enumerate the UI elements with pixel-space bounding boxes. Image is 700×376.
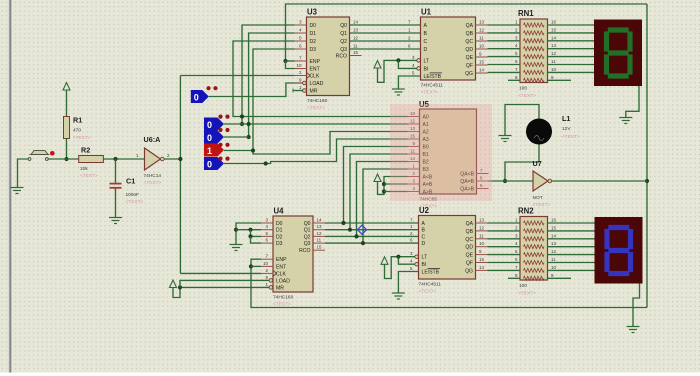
node C1 tap (113, 157, 117, 161)
wire RN1 out 2 to display (548, 40, 595, 42)
svg-text:13: 13 (551, 43, 557, 48)
wire U3 Q1 to U1 (350, 28, 421, 34)
node U1 LT/BI (396, 58, 400, 62)
svg-text:D1: D1 (276, 228, 283, 234)
wire RN1 out 4 to display (548, 56, 595, 58)
svg-text:ENP: ENP (310, 59, 321, 65)
wire U2 Q5 to RN2 (488, 262, 521, 264)
node tap Q2 (354, 234, 358, 238)
wire U5 A=B in (384, 183, 408, 185)
svg-text:<TEXT>: <TEXT> (80, 173, 98, 179)
logic state probe P4 (1) (204, 144, 224, 157)
svg-text:14: 14 (551, 35, 557, 40)
wire U2 LE to ground (398, 272, 418, 293)
wire U4 D2 (251, 230, 262, 237)
node P4 jog (264, 161, 268, 165)
wire RN2 out 1 to display (548, 230, 595, 232)
svg-text:15: 15 (479, 257, 485, 262)
wire U1 Q0 to RN1 (488, 24, 521, 26)
svg-text:Q1: Q1 (304, 228, 311, 234)
resistor network RN2 (515, 207, 557, 297)
power arrow (U5 cascade) (374, 174, 381, 182)
svg-text:10: 10 (479, 44, 485, 49)
power arrow (U4 LOAD/MR) (170, 280, 177, 288)
svg-text:QG: QG (465, 71, 473, 77)
wire switch to R2 (48, 158, 78, 160)
resistor R2 (79, 146, 104, 180)
svg-text:MR: MR (276, 285, 284, 291)
node D1/A1 (247, 122, 251, 126)
node U4 D3 tie (248, 234, 252, 238)
BCD decoder U1 74HC4511 (412, 8, 488, 96)
svg-text:C1: C1 (126, 177, 135, 186)
svg-text:BI: BI (424, 66, 429, 72)
node tap Q1 (348, 228, 352, 232)
svg-text:<TEXT>: <TEXT> (144, 180, 162, 186)
node A (R1/R2 junction) (64, 157, 68, 161)
wire U5 QA=B to U7 (489, 180, 534, 182)
svg-text:LE/STB: LE/STB (422, 270, 440, 276)
svg-text:15: 15 (317, 245, 323, 250)
svg-text:14: 14 (353, 20, 359, 25)
svg-text:100: 100 (519, 86, 527, 92)
wire U4 load power hook (173, 287, 269, 297)
svg-text:12: 12 (317, 231, 323, 236)
svg-text:<TEXT>: <TEXT> (73, 135, 91, 141)
wire probe P3 out (224, 150, 253, 152)
wire U2 Q6 to RN2 (488, 269, 521, 271)
svg-text:12: 12 (353, 36, 359, 41)
svg-text:13: 13 (479, 218, 485, 223)
ground (switch) (11, 188, 24, 194)
svg-text:U1: U1 (421, 8, 432, 17)
svg-text:A: A (422, 221, 426, 227)
wire U2 Q2 to RN2 (488, 238, 521, 240)
wire RN1 out 5 to display (548, 64, 595, 66)
wire U1 Q2 to RN1 (488, 40, 521, 42)
logic state probe P2 (0) (204, 118, 224, 131)
ground (lamp) (499, 136, 512, 142)
ground (U4 D pins) (230, 245, 243, 251)
wire U5 A>B in (384, 191, 408, 193)
resistor network RN1 (515, 9, 557, 99)
wire probe P2 out (224, 136, 249, 138)
svg-text:10k: 10k (80, 166, 88, 172)
svg-text:QC: QC (465, 39, 473, 45)
svg-text:100: 100 (519, 283, 527, 289)
svg-text:11: 11 (551, 59, 556, 64)
wire U1 Q3 to RN1 (488, 48, 521, 50)
wire P1 to U3 LOAD (209, 83, 303, 97)
wire U1 Q6 to RN1 (488, 71, 521, 73)
wire RN2 out 6 to display (548, 269, 595, 271)
wire RN2 out 0 to display (548, 222, 595, 224)
wire tap Q2 to U5 B2 (357, 162, 408, 237)
svg-text:0: 0 (207, 120, 212, 130)
wire U1 BI (398, 60, 416, 68)
svg-text:MR: MR (310, 89, 318, 95)
svg-text:12: 12 (551, 51, 557, 56)
logic state probe P3 (0) (204, 131, 224, 144)
7-segment display DS1 (green) (594, 20, 642, 87)
RN1 pin8 stub left (508, 79, 520, 81)
svg-text:<TEXT>: <TEXT> (419, 289, 437, 295)
svg-text:RCO: RCO (336, 54, 347, 60)
bottom white strip (0, 373, 700, 376)
wire R2 to U6 input (103, 153, 144, 159)
pushbutton switch (28, 151, 54, 161)
wire U4 LOAD (180, 280, 269, 287)
svg-text:RCO: RCO (299, 248, 310, 254)
wire U1 Q4 to RN1 (488, 56, 521, 58)
wire U3 Q0 to U1 (350, 20, 421, 26)
svg-text:<TEXT>: <TEXT> (273, 302, 291, 308)
svg-text:0: 0 (207, 133, 212, 143)
probe P3 dots (218, 128, 229, 132)
svg-text:<TEXT>: <TEXT> (518, 291, 536, 297)
svg-text:LT: LT (424, 58, 430, 64)
wire tap Q1 to U5 B1 (350, 154, 408, 230)
wire U3 Q3 to U1 (350, 44, 421, 50)
svg-text:11: 11 (353, 44, 358, 49)
node U4 LOAD/MR (178, 285, 182, 289)
svg-text:U3: U3 (307, 8, 318, 17)
BCD decoder U2 74HC4511 (410, 206, 488, 295)
svg-text:<TEXT>: <TEXT> (562, 134, 580, 140)
svg-text:74HC160: 74HC160 (273, 295, 294, 301)
svg-text:13: 13 (353, 28, 359, 33)
logic state probe P1 (0) for U3 LOAD (191, 90, 209, 103)
svg-text:QD: QD (465, 245, 473, 251)
wire U3 ENT (286, 61, 295, 69)
svg-text:CLK: CLK (310, 74, 321, 80)
node U7 out (645, 179, 649, 183)
wire U4 Q2 to U2 (325, 231, 419, 237)
svg-text:QE: QE (466, 253, 474, 259)
svg-text:470: 470 (73, 128, 81, 134)
selection highlight around U5 (390, 104, 492, 201)
svg-text:D2: D2 (310, 39, 317, 45)
svg-text:74HC160: 74HC160 (307, 98, 328, 104)
wire RN1 out 6 to display (548, 71, 595, 73)
RN2 pin8 stub left (508, 277, 520, 279)
wire lamp top to ground (505, 105, 539, 136)
svg-text:15: 15 (551, 27, 557, 32)
svg-text:Q1: Q1 (340, 31, 347, 37)
svg-text:C: C (422, 234, 426, 240)
svg-text:11: 11 (479, 36, 484, 41)
wire RN2 out 4 to display (548, 254, 595, 256)
wire clock to U3 CLK (180, 75, 294, 77)
wire U4 Q0 to U2 (325, 218, 419, 224)
probe P5 dots (218, 157, 229, 161)
svg-text:12: 12 (479, 28, 485, 33)
wire RN2 out 5 to display (548, 262, 595, 264)
node U4 D2 tie (248, 228, 252, 232)
svg-text:12V: 12V (562, 126, 571, 132)
svg-text:12: 12 (479, 225, 485, 230)
inverter U7 NOT (533, 159, 552, 208)
logic state probe P5 (0) (204, 157, 224, 170)
capacitor C1 (110, 177, 144, 206)
svg-text:12: 12 (551, 249, 557, 254)
svg-text:1: 1 (207, 146, 212, 156)
wire U4 D1 (236, 229, 261, 231)
probe P2 dots (218, 115, 229, 119)
svg-text:0: 0 (207, 160, 212, 170)
wire U5 cascade power (378, 177, 408, 195)
svg-text:14: 14 (479, 265, 485, 270)
svg-text:LT: LT (422, 255, 428, 261)
node U7 in (503, 179, 507, 183)
svg-text:LOAD: LOAD (310, 81, 324, 87)
svg-text:15: 15 (551, 225, 557, 230)
left divider bar (9, 0, 12, 373)
svg-text:13: 13 (551, 241, 557, 246)
wire tap Q3 to U5 B3 (363, 169, 408, 243)
wire RN1 out 1 to display (548, 32, 595, 34)
svg-text:B: B (422, 228, 426, 234)
svg-text:10: 10 (551, 67, 557, 72)
ground (C1) (109, 218, 122, 224)
svg-text:ENT: ENT (310, 67, 320, 73)
svg-text:B: B (424, 31, 428, 37)
wire U3 ENP (286, 60, 295, 62)
svg-text:<TEXT>: <TEXT> (307, 105, 325, 111)
svg-text:LE/STB: LE/STB (424, 74, 442, 80)
svg-text:ENT: ENT (276, 264, 286, 270)
node D2/A0 row (240, 114, 244, 118)
svg-text:74HC4511: 74HC4511 (421, 83, 444, 89)
wire lamp bottom to U7 input (505, 145, 539, 182)
svg-text:14: 14 (317, 218, 323, 223)
svg-text:<TEXT>: <TEXT> (518, 93, 536, 99)
svg-text:13: 13 (479, 20, 485, 25)
wire node to C1 (115, 159, 117, 183)
wire probe P4 out to A3 staircase (224, 139, 408, 164)
svg-text:U2: U2 (419, 206, 430, 215)
svg-text:10: 10 (551, 265, 557, 270)
wire U4 ENP/ENT to bottom rail (251, 259, 647, 307)
power arrow VCC (R1) (63, 83, 70, 117)
wire RN2 out 3 to display (548, 246, 595, 248)
svg-text:15: 15 (353, 50, 359, 55)
inverter U6:A 74HC14 (144, 135, 171, 186)
wire U3 D2 preset net to U5 A0 (233, 41, 408, 117)
svg-text:U6:A: U6:A (144, 135, 161, 144)
clock rail vertical (179, 76, 181, 274)
svg-text:R1: R1 (73, 116, 82, 125)
node D0 on A1 row (240, 122, 244, 126)
right feedback rail (646, 4, 648, 308)
wire DS1 to ground (626, 86, 639, 117)
svg-text:R2: R2 (81, 146, 90, 155)
ground (U2 LE) (392, 293, 405, 299)
wire U2 BI (398, 257, 414, 265)
node U4 ENT (249, 264, 253, 268)
svg-text:Q0: Q0 (340, 23, 347, 29)
wire U3 D0 preset net (242, 25, 295, 124)
svg-text:QA: QA (466, 23, 474, 29)
svg-text:11: 11 (317, 238, 322, 243)
wire U2 Q0 to RN2 (488, 222, 521, 224)
svg-text:D: D (424, 47, 428, 53)
svg-text:LOAD: LOAD (276, 278, 290, 284)
svg-text:QF: QF (466, 63, 473, 69)
RN1 pin9 stub right (548, 79, 572, 81)
wire clock to U4 CLK (180, 272, 261, 274)
wire U3 Q2 to U1 (350, 36, 421, 42)
7-segment display DS2 (blue) (595, 217, 643, 284)
svg-text:Q3: Q3 (304, 241, 311, 247)
svg-text:100nF: 100nF (126, 192, 140, 198)
wire U1 LE to ground (398, 76, 420, 89)
ground (DS1) (619, 118, 632, 124)
node clock rail / U6 out (178, 157, 182, 161)
wire U2 Q1 to RN2 (488, 230, 521, 232)
svg-text:74HC4511: 74HC4511 (419, 282, 442, 288)
wire C1 to ground (115, 189, 117, 218)
svg-text:QA: QA (466, 221, 474, 227)
svg-text:<TEXT>: <TEXT> (421, 90, 439, 96)
voltage probe marker (blue diamond) (358, 225, 367, 234)
wire U4 D0 to ground (236, 223, 261, 244)
svg-text:U7: U7 (533, 159, 542, 168)
node U4 D1 gnd (234, 228, 238, 232)
wire U6 output to clock rail (164, 158, 180, 160)
wire U3 D3 preset net to A2 staircase (253, 49, 408, 154)
wire RN1 out 3 to display (548, 48, 595, 50)
svg-text:RN1: RN1 (518, 9, 534, 18)
wire U4 Q1 to U2 (325, 224, 419, 230)
node U5 A>B (382, 189, 386, 193)
wire U1 power to LT (378, 60, 417, 82)
svg-text:D1: D1 (310, 31, 317, 37)
svg-text:<TEXT>: <TEXT> (126, 199, 144, 205)
svg-text:14: 14 (479, 68, 485, 73)
wire RN1 out 0 to display (548, 24, 595, 26)
svg-text:Q3: Q3 (340, 47, 347, 53)
wire U4 D3 (251, 236, 262, 243)
svg-text:D0: D0 (310, 23, 317, 29)
power arrow (U2 LT/BI) (381, 257, 388, 265)
svg-text:QF: QF (466, 261, 473, 267)
svg-text:Q2: Q2 (340, 39, 347, 45)
wire U3 D1 preset net (249, 33, 295, 137)
wire DS2 to ground (633, 284, 640, 327)
svg-text:D: D (422, 241, 426, 247)
svg-text:C: C (424, 39, 428, 45)
ground (U1 LE) (392, 89, 405, 95)
svg-text:16: 16 (551, 20, 557, 25)
wire top rail (286, 4, 648, 61)
svg-text:Q2: Q2 (304, 234, 311, 240)
wire U2 power to LT (385, 257, 415, 279)
node tap Q0 (341, 221, 345, 225)
RN2 pin9 stub right (548, 277, 572, 279)
svg-text:D0: D0 (276, 221, 283, 227)
wire probe P2 row to U5 A1 (224, 123, 408, 125)
wire R1 to node (66, 138, 68, 159)
svg-text:QD: QD (465, 47, 473, 53)
svg-text:D3: D3 (276, 241, 283, 247)
wire U1 Q1 to RN1 (488, 32, 521, 34)
svg-text:QE: QE (466, 55, 474, 61)
wire switch to ground (18, 159, 29, 187)
ground (DS2) (627, 327, 640, 333)
lamp L1 (526, 114, 580, 145)
svg-text:0: 0 (194, 93, 199, 103)
svg-text:11: 11 (479, 233, 484, 238)
wire U3 MR stub (293, 89, 303, 93)
comparator U5 74HC85 (408, 100, 489, 210)
svg-text:QB: QB (466, 229, 474, 235)
node D1/P2 (247, 135, 251, 139)
svg-text:10: 10 (263, 261, 269, 266)
resistor R1 (64, 116, 92, 142)
svg-text:16: 16 (551, 218, 557, 223)
svg-text:11: 11 (551, 257, 556, 262)
node P3/D3 (251, 148, 255, 152)
svg-text:NOT: NOT (533, 195, 543, 201)
svg-text:QG: QG (465, 268, 473, 274)
svg-text:14: 14 (551, 233, 557, 238)
node U5 A=B (382, 182, 386, 186)
svg-text:<TEXT>: <TEXT> (533, 202, 551, 208)
wire U1 Q5 to RN1 (488, 64, 521, 66)
svg-text:D3: D3 (310, 47, 317, 53)
counter U4 74HC160 (261, 207, 325, 308)
probe P1 dots (206, 86, 217, 90)
wire U4 ENT (251, 265, 261, 267)
svg-text:L1: L1 (562, 114, 570, 123)
wire U7 output to rail (552, 180, 647, 182)
svg-text:QC: QC (465, 237, 473, 243)
node tap Q3 (361, 241, 365, 245)
svg-text:U4: U4 (274, 207, 285, 216)
svg-text:ENP: ENP (276, 257, 287, 263)
svg-text:10: 10 (479, 241, 485, 246)
svg-text:13: 13 (317, 224, 323, 229)
svg-text:A: A (424, 23, 428, 29)
wire U2 Q3 to RN2 (488, 246, 521, 248)
svg-text:CLK: CLK (276, 271, 287, 277)
svg-text:Q0: Q0 (304, 221, 311, 227)
svg-text:10: 10 (296, 63, 302, 68)
wire tap Q0 to U5 B0 (344, 147, 408, 224)
node U2 LT/BI (396, 255, 400, 259)
svg-text:15: 15 (479, 60, 485, 65)
wire RN2 out 2 to display (548, 238, 595, 240)
node U3 ENP (283, 59, 287, 63)
svg-text:BI: BI (422, 262, 427, 268)
wire U4 Q3 to U2 (325, 238, 419, 244)
svg-text:74HC14: 74HC14 (144, 173, 162, 179)
power arrow (U1 LT/BI) (374, 61, 381, 69)
svg-text:D2: D2 (276, 234, 283, 240)
wire U2 Q4 to RN2 (488, 254, 521, 256)
svg-text:QB: QB (466, 31, 474, 37)
probe P4 dots (218, 143, 229, 147)
counter U3 74HC160 (295, 8, 362, 112)
